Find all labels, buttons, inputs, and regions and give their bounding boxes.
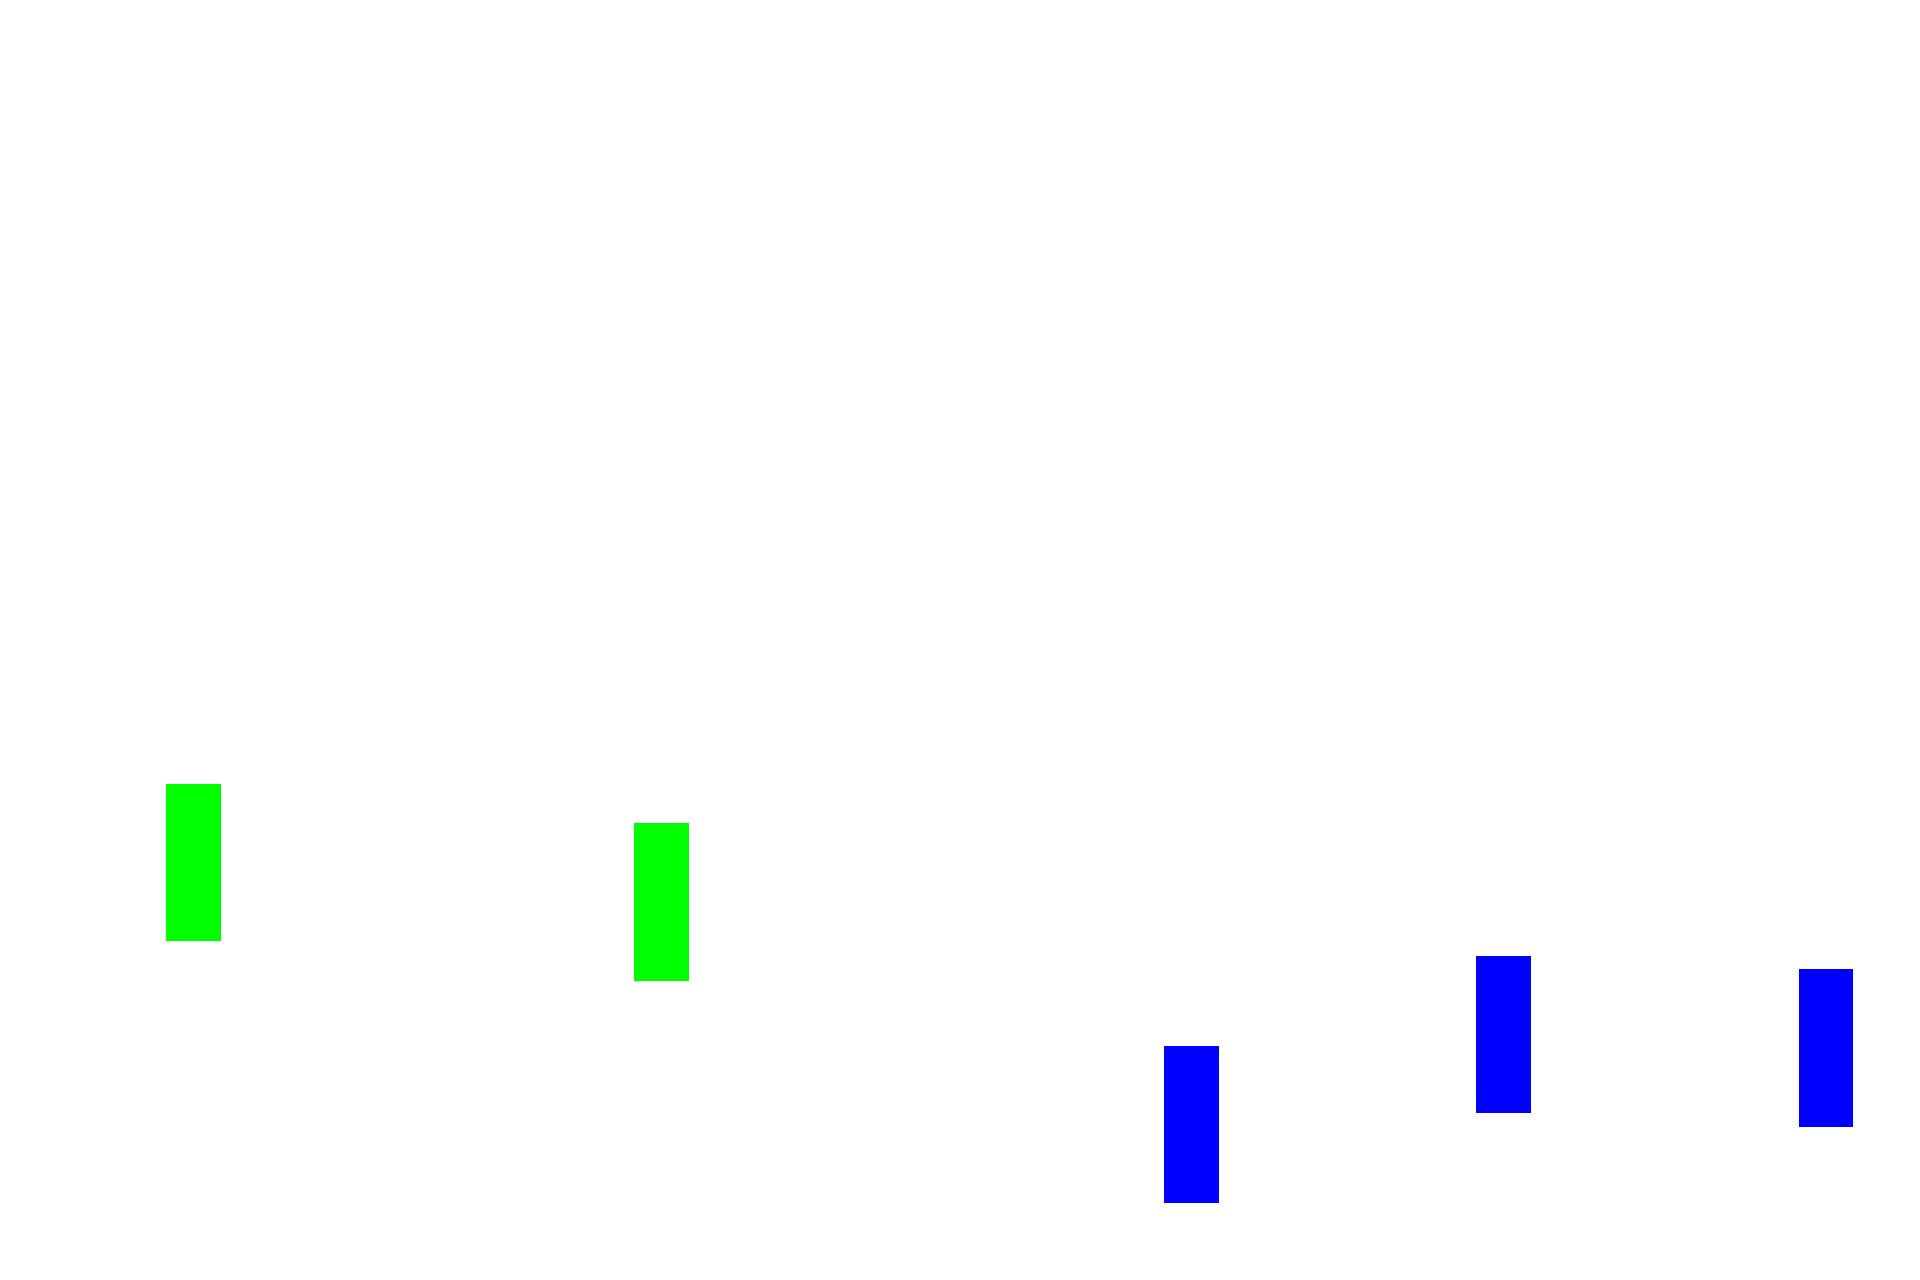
green block 2 bbox=[634, 823, 689, 981]
blue block 3 bbox=[1799, 969, 1853, 1127]
green block 1 bbox=[166, 784, 221, 941]
blue block 2 bbox=[1476, 956, 1531, 1113]
blue block 1 bbox=[1164, 1046, 1219, 1203]
